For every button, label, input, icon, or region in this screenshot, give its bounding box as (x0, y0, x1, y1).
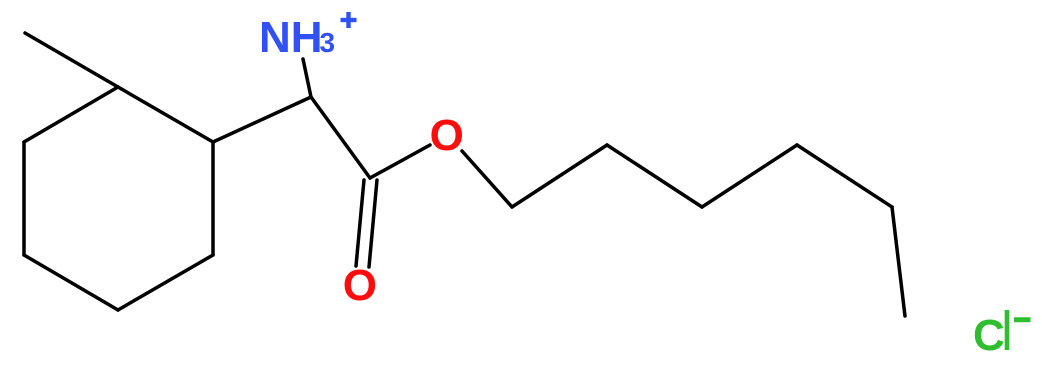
bond chiral C to N (clipped at NH3 text) (303, 59, 311, 97)
bond ester O to chain C1 (462, 151, 512, 207)
l of Cl (1005, 310, 1010, 350)
bond carbonyl C to ester O (clipped at O text) (370, 145, 430, 178)
chain bond C4-C5 (797, 145, 892, 207)
chain bond C1-C2 (512, 145, 607, 207)
svg-text:C: C (973, 311, 1005, 360)
carbonyl C=O double bond line 2 (369, 180, 377, 267)
cyclohexane ring (24, 33, 905, 316)
bond ring A2 to chiral C (213, 97, 311, 142)
wire ring bond A5-A6 (22, 142, 26, 255)
wire ring bond A6-A1 (24, 87, 118, 142)
chain bond C3-C4 (702, 145, 797, 207)
chain bond C2-C3 (607, 145, 702, 207)
minus sign of Cl- (1007, 310, 1031, 350)
wire ring bond A4-A5 (24, 255, 118, 310)
wire ring bond A1-A2 (118, 87, 213, 142)
methyl bond on ring apex (25, 33, 118, 87)
plus sign of NH3+ (341, 12, 357, 28)
svg-text:NH: NH (259, 13, 323, 62)
wire ring bond A2-A3 (211, 142, 215, 255)
chain bond C5-C6 terminal (892, 207, 905, 316)
bond chiral C to carbonyl C (311, 97, 370, 178)
svg-text:O: O (343, 261, 377, 310)
minus sign of Cl- (1014, 317, 1031, 322)
svg-text:O: O (430, 111, 464, 160)
wire ring bond A3-A4 (118, 255, 213, 310)
svg-text:3: 3 (320, 27, 336, 58)
carbonyl C=O double bond line 1 (356, 180, 364, 266)
ammonium label NH3+ (259, 13, 335, 62)
